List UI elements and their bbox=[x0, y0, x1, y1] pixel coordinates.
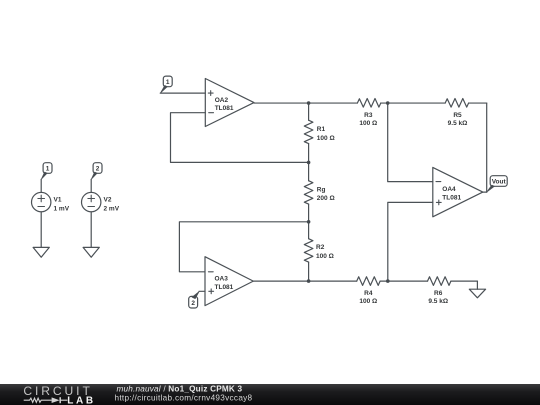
wire OA2 output to R3 bbox=[254, 102, 357, 104]
wire R5 to OA4 output (right vertical) bbox=[486, 103, 488, 192]
wire R3 node to R5 bbox=[388, 102, 446, 104]
resistor R1 bbox=[304, 103, 313, 162]
svg-text:100 Ω: 100 Ω bbox=[359, 298, 377, 305]
voltage source V2 bbox=[82, 179, 101, 247]
resistor R4 bbox=[357, 277, 388, 286]
svg-text:2: 2 bbox=[191, 300, 195, 307]
OA3 labels bbox=[215, 276, 234, 291]
resistor R5 bbox=[445, 99, 487, 108]
Rg labels bbox=[317, 186, 335, 202]
svg-text:9.5 kΩ: 9.5 kΩ bbox=[428, 298, 448, 305]
op-amp OA2 bbox=[205, 79, 254, 127]
svg-text:OA4: OA4 bbox=[442, 186, 456, 193]
svg-text:V2: V2 bbox=[104, 197, 112, 204]
svg-text:R4: R4 bbox=[364, 290, 373, 297]
resistor Rg bbox=[304, 162, 313, 221]
resistor R2 bbox=[304, 222, 313, 281]
wire OA3 output to R4 bbox=[253, 280, 356, 282]
OA2 labels bbox=[215, 97, 234, 112]
svg-text:TL081: TL081 bbox=[215, 284, 234, 291]
V1 value label bbox=[54, 197, 70, 213]
svg-text:OA2: OA2 bbox=[215, 97, 229, 104]
wire flag1 to OA2 + input bbox=[160, 92, 205, 94]
svg-text:R6: R6 bbox=[434, 290, 443, 297]
V2 value label bbox=[104, 197, 120, 213]
ground (V1) bbox=[33, 247, 49, 257]
junction dots bbox=[307, 101, 390, 283]
R4 labels bbox=[359, 290, 377, 305]
svg-text:TL081: TL081 bbox=[215, 105, 234, 112]
node flag Vout bbox=[487, 176, 508, 192]
wire OA3 feedback (inverting input loop) bbox=[179, 222, 308, 272]
node flag 2 (OA3 input) bbox=[189, 291, 200, 308]
OA4 labels bbox=[442, 186, 461, 201]
svg-text:Vout: Vout bbox=[492, 179, 507, 186]
svg-text:100 Ω: 100 Ω bbox=[316, 253, 334, 260]
svg-text:Rg: Rg bbox=[317, 186, 326, 193]
node flag 1 (OA2 input) bbox=[160, 76, 172, 93]
wire R4 node up to OA4 + input bbox=[388, 202, 433, 281]
wire R6 to ground bbox=[476, 281, 478, 289]
svg-text:muh.nauval / No1_Quiz CPMK 3: muh.nauval / No1_Quiz CPMK 3 bbox=[117, 385, 243, 394]
svg-text:1 mV: 1 mV bbox=[54, 206, 70, 213]
svg-text:9.5 kΩ: 9.5 kΩ bbox=[448, 120, 468, 127]
op-amp OA3 bbox=[205, 257, 253, 306]
R2 labels bbox=[316, 244, 334, 260]
node flag 2 (V2) bbox=[91, 163, 102, 180]
svg-text:R3: R3 bbox=[364, 112, 373, 119]
wire OA2 feedback (inverting input loop) bbox=[171, 113, 309, 163]
R6 labels bbox=[428, 290, 448, 305]
svg-text:100 Ω: 100 Ω bbox=[317, 135, 335, 142]
ground (V2) bbox=[83, 247, 99, 257]
CircuitLab logo bbox=[23, 384, 95, 405]
svg-text:2: 2 bbox=[96, 166, 100, 173]
svg-text:R1: R1 bbox=[317, 126, 326, 133]
R1 labels bbox=[317, 126, 335, 142]
svg-text:V1: V1 bbox=[54, 197, 62, 204]
resistor R3 bbox=[357, 99, 387, 108]
svg-text:100 Ω: 100 Ω bbox=[359, 120, 377, 127]
op-amp OA4 bbox=[433, 167, 483, 216]
svg-text:1: 1 bbox=[46, 166, 50, 173]
voltage source V1 bbox=[32, 179, 51, 247]
wire R4 node to R6 bbox=[388, 280, 428, 282]
svg-text:200 Ω: 200 Ω bbox=[317, 195, 335, 202]
wire OA4 output bbox=[483, 191, 487, 193]
svg-text:http://circuitlab.com/crnv493v: http://circuitlab.com/crnv493vccay8 bbox=[115, 394, 253, 403]
svg-text:TL081: TL081 bbox=[442, 195, 461, 202]
wire R3 node down to OA4 - input bbox=[388, 103, 433, 182]
wire flag2 to OA3 + input bbox=[199, 290, 205, 292]
svg-text:1: 1 bbox=[166, 79, 170, 86]
resistor R6 bbox=[428, 277, 478, 286]
node flag 1 (V1) bbox=[41, 163, 52, 180]
svg-text:LAB: LAB bbox=[67, 396, 95, 405]
R5 labels bbox=[448, 112, 468, 127]
svg-text:2 mV: 2 mV bbox=[104, 206, 120, 213]
svg-text:R5: R5 bbox=[453, 112, 462, 119]
svg-text:OA3: OA3 bbox=[215, 276, 229, 283]
ground (R6) bbox=[469, 289, 485, 298]
R3 labels bbox=[359, 112, 377, 127]
svg-text:R2: R2 bbox=[316, 244, 325, 251]
